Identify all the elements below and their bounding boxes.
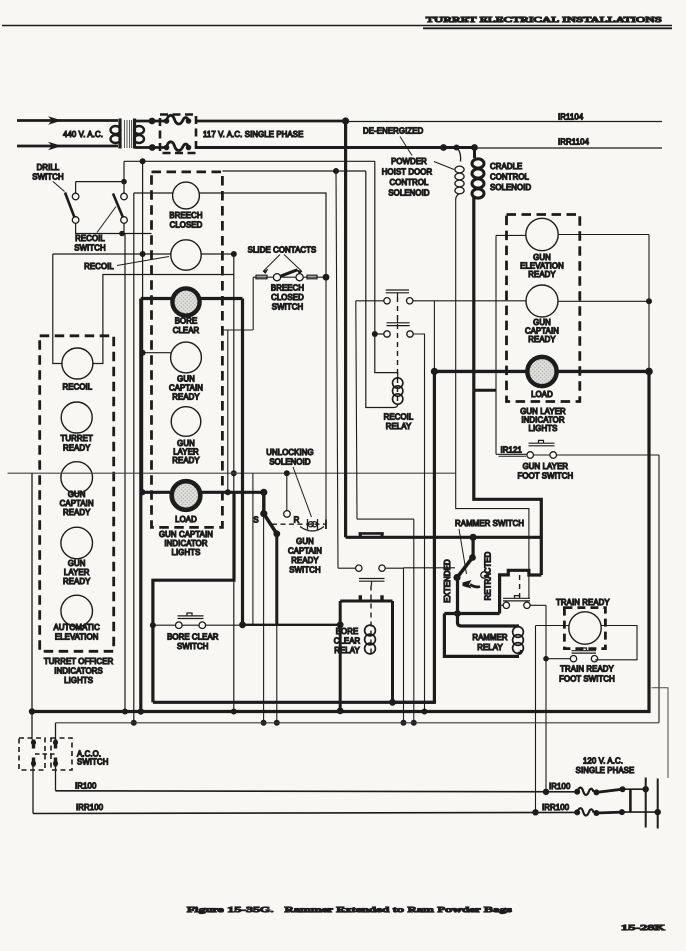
svg-text:BORE CLEAR: BORE CLEAR (167, 633, 219, 642)
svg-text:15-28K: 15-28K (621, 923, 665, 932)
svg-text:SINGLE PHASE: SINGLE PHASE (576, 766, 635, 775)
svg-text:SWITCH: SWITCH (32, 173, 63, 182)
svg-text:LAYER: LAYER (64, 568, 90, 577)
armature dashed bore clear relay (370, 586, 372, 657)
svg-text:CAPTAIN: CAPTAIN (60, 499, 94, 508)
junction dot recoil relay K2 left (372, 331, 378, 337)
svg-text:READY: READY (63, 508, 91, 517)
wire ACO right bottom to IR100 (55, 767, 57, 791)
junction dot x276.8 bus C (274, 720, 280, 726)
wire recoil lamps tie (y=254) (53, 253, 234, 255)
junction dot switch bottom (119, 231, 125, 237)
wire recoil relay coil return (366, 404, 398, 408)
lamp BORE CLEAR (lit) (173, 290, 199, 316)
wire rammer coil feed (thick) (458, 614, 520, 627)
svg-text:READY: READY (528, 270, 556, 279)
wire retracted pole bridge (thick) (500, 570, 542, 613)
wire x252.9 riser (y473 to bore clear switch wire) (252, 473, 254, 625)
wire y171 (breech box top to recoil relay return) (222, 170, 365, 172)
svg-text:RELAY: RELAY (334, 646, 360, 655)
wire right edge riser x659 (foot switch to bus C) (658, 455, 660, 723)
junction dot frame right on thick bus A (389, 699, 396, 706)
wire rammer relay top link (thick) (444, 612, 499, 615)
svg-text:RECOIL: RECOIL (75, 234, 105, 243)
contact R circle (284, 511, 291, 518)
bus riser thick x434.4 (load bus to bottom thick bus) (391, 371, 435, 702)
junction dot bottom bus at rammer feed (440, 144, 447, 151)
svg-text:UNLOCKING: UNLOCKING (266, 448, 313, 457)
svg-text:IRR1104: IRR1104 (558, 138, 590, 147)
junction dot x649 load bus (645, 368, 653, 376)
motion arrow (463, 580, 472, 589)
junction dot y254 at x142.6 (140, 251, 146, 257)
svg-text:CRADLE: CRADLE (490, 162, 522, 171)
wire recoil relay armature (dashed) (397, 297, 399, 402)
svg-text:GUN: GUN (68, 490, 86, 499)
svg-text:FOOT SWITCH: FOOT SWITCH (518, 472, 574, 481)
svg-text:CONTROL: CONTROL (390, 178, 430, 187)
fuse F2 bottom (164, 145, 170, 151)
svg-text:SOLENOID: SOLENOID (388, 189, 430, 198)
wire recoil lamp right return riser (93, 275, 234, 364)
lamp GUN CAPTAIN READY (gun layer col) (526, 285, 558, 317)
svg-text:SOLENOID: SOLENOID (490, 183, 532, 192)
svg-text:CLEAR: CLEAR (334, 637, 361, 646)
switch S4b gun captain ready second pole (338, 565, 404, 586)
svg-text:SOLENOID: SOLENOID (269, 458, 311, 467)
svg-text:RECOIL: RECOIL (63, 383, 93, 392)
lamp LOAD gun layer col (lit, redraw over bus) (527, 357, 556, 386)
wire 117V top bus thick to node (196, 120, 346, 123)
title underline (423, 27, 672, 29)
label RECOIL RELAY (384, 413, 414, 432)
svg-text:READY: READY (172, 393, 200, 402)
wire drill circuit top (y=161.3) (124, 160, 375, 162)
bus right riser thick (load bus to bottom bus) (32, 371, 649, 711)
svg-text:IRR100: IRR100 (542, 803, 570, 812)
svg-text:DRILL: DRILL (37, 163, 60, 172)
lamp TURRET READY (61, 402, 92, 433)
junction dot x413.8 bus C (411, 720, 417, 726)
label BREECH CLOSED SWITCH (271, 284, 304, 312)
wire cradle link thick y390.2 (474, 389, 496, 392)
turret officer indicators dashed box (40, 336, 114, 652)
junction dot x242.5 at bore clear switch wire (239, 621, 246, 628)
wire x374.8 recoil relay contact feed (374, 161, 376, 334)
wire ACO right top riser (55, 723, 57, 740)
transformer T1 primary (118, 119, 121, 149)
wire rammer coil return (thick) (444, 614, 521, 657)
lamp GUN CAPTAIN READY (gun captain col) (171, 342, 202, 373)
wire ACO left bottom to IRR100 (32, 767, 34, 814)
svg-text:INDICATOR: INDICATOR (164, 539, 207, 548)
switch S8 rammer retracted contacts (500, 596, 546, 609)
label GUN LAYER FOOT SWITCH (518, 462, 574, 481)
junction dot load bus at S feed (260, 489, 267, 496)
junction dot x649 GCR (646, 298, 652, 304)
junction dot x263.6 bus C (261, 720, 267, 726)
svg-text:READY: READY (291, 556, 319, 565)
wire IRR100 to rail2 (622, 811, 658, 813)
lamp GUN LAYER READY (gun captain col) (171, 407, 201, 437)
label RECOIL with pointer (84, 257, 169, 272)
net IR100 long line (56, 791, 578, 792)
bus riser thick x140.8 (bore bus to bottom bus) (139, 299, 142, 712)
armature dashed rammer (519, 575, 521, 597)
wire K1 right drop x434.4 (thin) (433, 301, 435, 372)
solenoid symbol unlocking solenoid (300, 519, 324, 531)
net IRR1104 thin continuation (475, 147, 662, 149)
svg-text:CLEAR: CLEAR (173, 326, 200, 335)
bus riser thick x242.5 (bore bus to bore clear switch) (241, 299, 244, 625)
junction dot x535.5 on IRR100 (532, 809, 538, 815)
svg-text:ELEVATION: ELEVATION (55, 633, 99, 642)
svg-text:SWITCH: SWITCH (77, 758, 108, 767)
lamp BREECH CLOSED (173, 182, 200, 209)
svg-text:HOIST DOOR: HOIST DOOR (382, 168, 433, 177)
svg-text:SWITCH: SWITCH (272, 303, 303, 312)
switch S7 rammer switch blade (on EXTENDED) (472, 537, 475, 556)
svg-text:LOAD: LOAD (531, 390, 553, 399)
svg-text:SWITCH: SWITCH (289, 566, 320, 575)
svg-text:GUN CAPTAIN: GUN CAPTAIN (159, 530, 213, 539)
wire x336 drop to R-pole (336, 171, 338, 568)
svg-text:CAPTAIN: CAPTAIN (288, 547, 322, 556)
switch S2 recoil (contacts+blade) (121, 193, 128, 200)
relay coil bore clear relay (365, 625, 376, 654)
wire S feed from load bus (thick) (262, 492, 265, 513)
lamp RECOIL (turret officer) (62, 348, 93, 379)
junction dot x233.8 on y473 line (231, 470, 237, 476)
label UNLOCKING SOLENOID with pointer (266, 448, 313, 517)
svg-text:TRAIN READY: TRAIN READY (556, 598, 610, 607)
wire recoil switch riser (123, 161, 125, 193)
wire S blade output drop (thick then thin to bus C) (275, 534, 278, 625)
wire gcr lamp feed (143, 352, 171, 354)
wire GCR right lead (558, 300, 649, 302)
svg-text:RAMMER SWITCH: RAMMER SWITCH (455, 519, 524, 528)
wire x535.5 drop to IRR100 (535, 626, 537, 813)
bus load thick right (to right column) (434, 370, 649, 373)
wire recoil lamp left feed (from drill bus corner) (53, 254, 62, 364)
wire IR100 to rail (623, 788, 646, 790)
wire drill switch top link (76, 182, 124, 194)
junction dot x546 on IR100 (543, 789, 549, 795)
switch S9 train ready foot switch (546, 648, 598, 662)
junction dot x142.6 gcr lamp feed (140, 350, 146, 356)
wire long riser x=142.6 (drill top to load bus) (142, 161, 144, 492)
wire x263.6 riser (S contact to bus C) (263, 516, 265, 723)
svg-text:RECOIL: RECOIL (384, 413, 414, 422)
junction dot secondary bottom (149, 144, 156, 151)
lamp AUTOMATIC ELEVATION (61, 595, 93, 627)
wire right stub L (652, 688, 669, 778)
junction dot frame left on bottom bus (337, 707, 344, 714)
lamp BORE CLEAR (lit, redraw over bus) (172, 288, 199, 315)
wire rammer blade output (thick) (456, 577, 459, 614)
svg-text:SLIDE CONTACTS: SLIDE CONTACTS (248, 246, 317, 255)
net IRR100 long line (33, 812, 577, 813)
fuse F1 top (164, 118, 170, 124)
ACO link dashed (35, 753, 56, 755)
svg-text:CLOSED: CLOSED (271, 293, 304, 302)
junction dot bottom bus at hoist solenoid (454, 145, 460, 151)
svg-text:RECOIL: RECOIL (84, 262, 114, 271)
wire cradle solenoid to rammer feed (thick vertical) (472, 197, 475, 390)
lamp LOAD (lit, gun layer col) (527, 357, 557, 387)
switch S11 IRR100 blade (596, 811, 622, 815)
supply rail 2 (657, 779, 659, 829)
svg-text:117 V. A.C. SINGLE PHASE: 117 V. A.C. SINGLE PHASE (203, 130, 303, 139)
wire long line x=133.8 (breech lamp to bus C) (133, 193, 135, 723)
arrow on top feeder (48, 116, 62, 124)
label RAMMER SWITCH with pointer (455, 519, 524, 574)
ACO left dashed box (19, 738, 45, 770)
junction dot node top bus (342, 117, 349, 124)
svg-text:FOOT SWITCH: FOOT SWITCH (559, 675, 615, 684)
junction dot x140.8 bottom bus (138, 708, 144, 714)
wire breech lamp left lead (134, 192, 173, 194)
junction dot y171 (333, 168, 339, 174)
switch S11 IR100 blade (596, 789, 622, 792)
switch S5 bore clear switch (152, 613, 243, 629)
junction dot blade output on coil wire (454, 610, 461, 617)
label GUN LAYER INDICATOR LIGHTS (520, 407, 566, 433)
transformer T1 core (125, 120, 132, 148)
wire 440V top feeder (17, 119, 118, 122)
label POWDER HOIST DOOR CONTROL SOLENOID (382, 157, 454, 198)
wire right riser x649 thin (648, 235, 650, 372)
bus C thin return (y=722.8) (56, 722, 660, 724)
bus bore clear (thick) (141, 297, 243, 300)
ACO left contacts (32, 740, 35, 767)
bus thick staircase left (load bus to bottom bus A) (153, 492, 234, 702)
wire bore clear switch to relay frame (medium) (243, 624, 341, 626)
label GUN CAPTAIN INDICATOR LIGHTS (159, 530, 213, 557)
relay coil rammer relay (513, 627, 524, 654)
lamp GUN CAPTAIN READY (turret officer) (61, 462, 93, 494)
svg-text:RAMMER: RAMMER (472, 633, 508, 642)
lamp LOAD (lit, gun captain col) (171, 481, 200, 510)
lamp GUN LAYER READY (turret officer) (61, 527, 93, 559)
label 120 V. A.C. SINGLE PHASE (576, 757, 635, 776)
svg-text:LOAD: LOAD (175, 515, 197, 524)
wire GER left lead + left box side (496, 235, 526, 454)
svg-text:CAPTAIN: CAPTAIN (169, 384, 203, 393)
lamp LOAD breech col (lit, redraw over bus) (172, 481, 200, 509)
svg-text:POWDER: POWDER (391, 157, 427, 166)
wire x546 drop (retracted contact to IR100) (545, 605, 547, 792)
junction dot x142.6 load bus (140, 489, 146, 495)
label A.C.O. SWITCH (77, 750, 108, 767)
wire GER right lead (558, 234, 649, 236)
svg-text:READY: READY (63, 577, 91, 586)
svg-text:BORE: BORE (336, 627, 359, 636)
junction dot drill-recoil tie (121, 179, 127, 185)
wire x403.5 corner (to extended contact + bus C) (403, 568, 405, 723)
switch S6 gun layer foot switch (496, 440, 659, 458)
svg-text:SWITCH: SWITCH (177, 642, 208, 651)
svg-text:BREECH: BREECH (169, 211, 202, 220)
bus thick bottom A (153, 701, 435, 704)
lamp TRAIN READY (569, 612, 601, 644)
junction dot x403.5 bus C (401, 720, 407, 726)
wire x326 drop to gun captain ready switch dashes (325, 277, 327, 524)
supply rail 1 (645, 778, 647, 828)
svg-text:TURRET: TURRET (61, 434, 93, 443)
svg-text:READY: READY (172, 456, 200, 465)
junction dot x32 bottom bus (29, 708, 35, 714)
contact bridge gun captain switch pole2 (thick, on rammer feed) (346, 536, 542, 539)
wire 117V bottom bus thick (196, 146, 475, 149)
svg-text:IR1104: IR1104 (558, 113, 584, 122)
wire secondary top to fuse box (135, 120, 166, 123)
train ready dashed box (564, 608, 605, 649)
lamp RECOIL (gun captain) (171, 240, 201, 270)
label TRAIN READY FOOT SWITCH (559, 665, 615, 684)
contact S dot (260, 510, 267, 517)
wire drill/recoil bottom tie (76, 223, 152, 233)
label BORE CLEAR SWITCH (167, 633, 219, 652)
wire R contact riser (286, 473, 288, 510)
title rule (2, 25, 672, 27)
page title (426, 15, 662, 24)
svg-text:DE-ENERGIZED: DE-ENERGIZED (363, 127, 424, 136)
link end bar (325, 520, 327, 530)
wire 440V bottom feeder (17, 145, 118, 148)
junction dot x125 bottom bus (122, 709, 128, 715)
svg-text:440 V. A.C.: 440 V. A.C. (63, 130, 103, 139)
svg-text:IR121: IR121 (501, 446, 522, 455)
wire long line x=125 (switch bottom to bottom bus) (124, 234, 126, 712)
wire breech lamp right lead to slide switch (199, 193, 326, 274)
svg-text:AUTOMATIC: AUTOMATIC (54, 623, 101, 632)
junction dot x133.8 bus C (131, 720, 137, 726)
solenoid L1 powder hoist door control (455, 148, 464, 200)
net y473 long line (turret officer circuit) (8, 472, 456, 474)
junction dot x233.8 on bottom bus (231, 709, 237, 715)
wire x227.8 riser (slide circuit to load bus) (227, 330, 229, 492)
wire y519.1 link (357, 518, 414, 520)
svg-text:TRAIN READY: TRAIN READY (560, 665, 614, 674)
contact RETRACTED open circle (481, 572, 487, 578)
svg-text:120 V. A.C.: 120 V. A.C. (583, 757, 623, 766)
bus thick x473.8 (to rammer retracted) (474, 390, 542, 575)
gun layer indicator lights dashed box (507, 215, 580, 402)
svg-text:CONTROL: CONTROL (490, 173, 530, 182)
wire secondary bottom to fuse box (135, 146, 166, 149)
wire y330 link (222, 329, 253, 331)
wire powder hoist return (down to y=508 corner right to x=529) (456, 200, 529, 599)
ACO right dashed box (51, 738, 72, 770)
svg-text:IR100: IR100 (75, 782, 97, 791)
svg-text:READY: READY (528, 335, 556, 344)
switch S10 A.C.O. switch (19, 738, 72, 770)
tie bar ganged switch (629, 789, 632, 812)
junction dot y473 R-branch (284, 470, 290, 476)
svg-text:GUN: GUN (177, 375, 195, 384)
wire x365.8 recoil relay coil return (365, 171, 367, 405)
svg-text:LIGHTS: LIGHTS (172, 548, 201, 557)
wire K2 coil link (375, 334, 398, 378)
label TURRET OFFICER INDICATORS LIGHTS (44, 657, 114, 685)
wire x357 drop from K1 left (356, 301, 357, 519)
relay K1 recoil relay contact b (384, 319, 413, 338)
frame contact nubs (360, 595, 382, 601)
junction dot at frame left (337, 621, 344, 628)
svg-text:LIGHTS: LIGHTS (64, 676, 93, 685)
junction dot bore clear switch left (on thick riser) (150, 622, 156, 628)
wire x413.8 drop to bus C (413, 519, 415, 723)
junction dot x546 at foot switch wire (543, 656, 549, 662)
svg-text:RELAY: RELAY (477, 643, 503, 652)
svg-text:GUN: GUN (296, 537, 314, 546)
wire K2 right drop x424.5 (413, 334, 424, 712)
svg-text:CLOSED: CLOSED (170, 221, 203, 230)
junction dot rail1 (643, 786, 649, 792)
label BORE CLEAR RELAY (334, 627, 361, 655)
arrow on bottom feeder (48, 142, 62, 150)
wire y300.8 (K1 row to right column GCR lamp) (356, 300, 526, 302)
svg-text:SWITCH: SWITCH (74, 244, 105, 253)
label RAMMER RELAY (472, 633, 508, 652)
fuse box dashed enclosure (160, 115, 196, 154)
svg-text:EXTENDED: EXTENDED (443, 559, 452, 603)
relay K1 recoil relay contact a (384, 290, 413, 304)
switch S1 drill (contacts+blade) (72, 193, 79, 200)
label CRADLE CONTROL SOLENOID (490, 162, 532, 192)
ACO right contacts (54, 740, 57, 767)
bus load lamp (thick) (141, 491, 264, 494)
svg-text:TURRET ELECTRICAL INSTALLATION: TURRET ELECTRICAL INSTALLATIONS (426, 15, 662, 24)
relay coil recoil relay (393, 378, 403, 404)
svg-text:Figure 15-35G. Rammer Extend: Figure 15-35G. Rammer Extended to Ram Po… (187, 905, 512, 914)
junction dot x424.5 bottom bus (422, 709, 428, 715)
svg-text:BREECH: BREECH (271, 284, 304, 293)
junction dot slide switch right (323, 274, 330, 281)
svg-text:IRR100: IRR100 (76, 803, 104, 812)
junction dot load bus start (431, 368, 438, 375)
figure caption (187, 905, 665, 932)
label GUN CAPTAIN READY SWITCH (288, 537, 322, 575)
svg-text:LIGHTS: LIGHTS (529, 424, 558, 433)
solenoid L2 cradle control (472, 148, 484, 199)
label SLIDE CONTACTS with pointers (248, 246, 317, 275)
lamp GUN ELEVATION READY (526, 218, 558, 250)
fuse F4 IRR100 (574, 809, 580, 815)
wire K2 left stub (375, 333, 384, 335)
svg-text:RETRACTED: RETRACTED (484, 551, 493, 600)
svg-text:RELAY: RELAY (386, 422, 412, 431)
junction dot rail2 (655, 809, 661, 815)
pointer de-energized (400, 137, 412, 156)
wire train ready right lead (595, 626, 637, 660)
net IR1104 thin continuation (346, 121, 662, 123)
junction dot secondary top (149, 118, 156, 125)
junction dot drill top wire (140, 158, 146, 164)
wire x32 left riser to ACO (31, 473, 33, 739)
blade S closed (264, 514, 277, 534)
switch S4 gun captain ready (S/R) (253, 510, 299, 537)
gun captain indicator lights dashed box (152, 172, 223, 528)
bore clear relay frame (thick) (340, 601, 392, 710)
wire train ready left lead (536, 625, 569, 627)
mechanical link dashed to unlocking solenoid (272, 523, 326, 525)
label DRILL SWITCH (32, 163, 64, 192)
switch S3 breech closed (slide contacts) (253, 270, 326, 281)
junction dot y254 at x233.8 (231, 251, 237, 257)
junction dot bottom bus at cradle solenoid (471, 144, 478, 151)
